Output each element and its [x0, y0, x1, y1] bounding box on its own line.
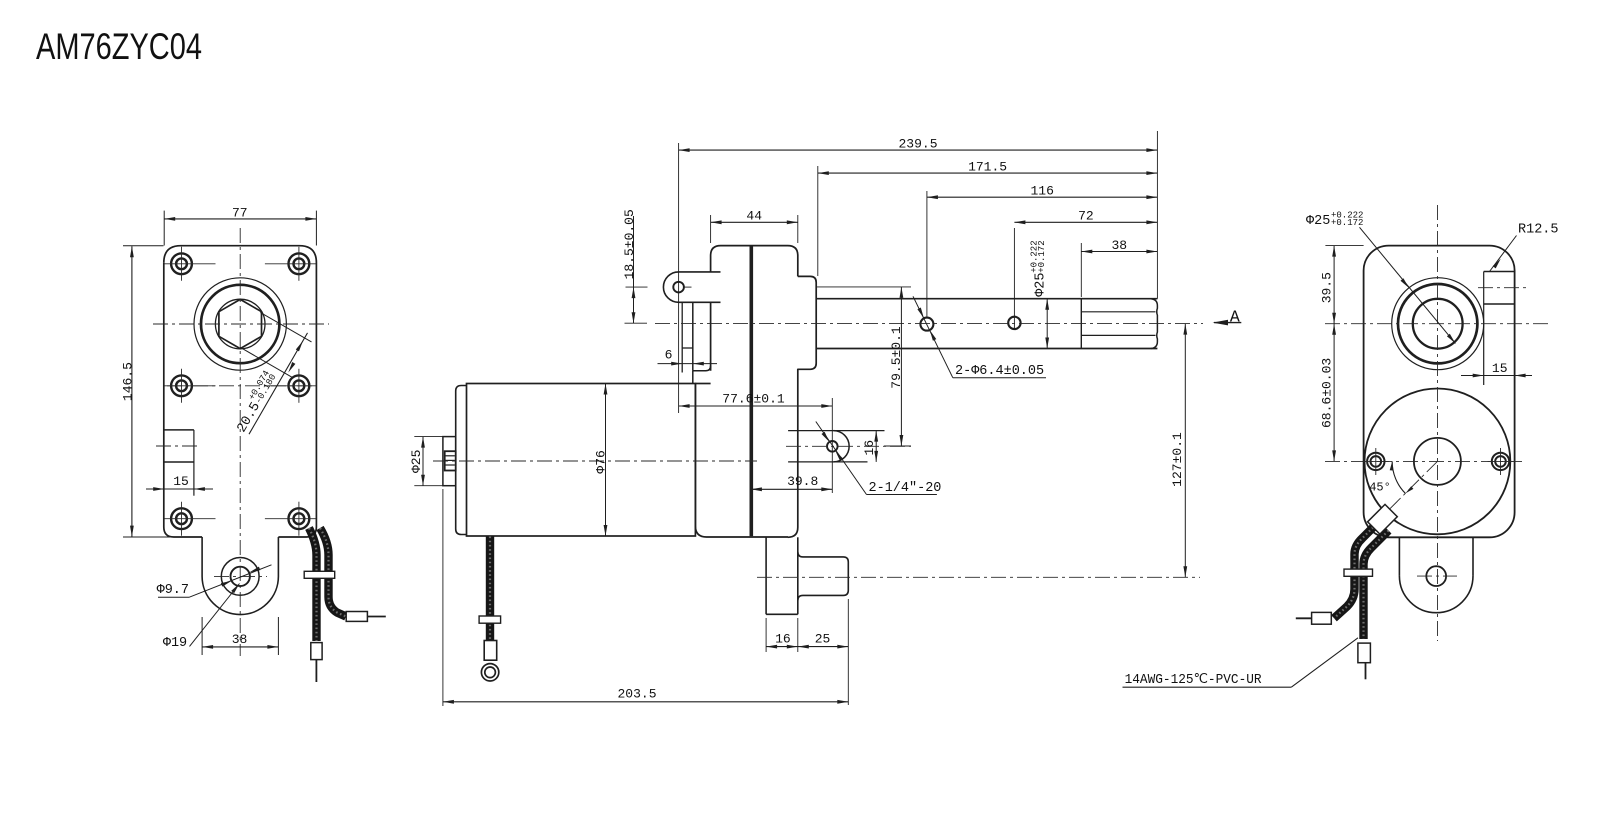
svg-text:44: 44	[746, 209, 762, 224]
svg-text:171.5: 171.5	[968, 160, 1007, 175]
svg-text:14AWG-125℃-PVC-UR: 14AWG-125℃-PVC-UR	[1125, 673, 1262, 688]
svg-text:2-Φ6.4±0.05: 2-Φ6.4±0.05	[955, 364, 1044, 379]
svg-text:39.8: 39.8	[787, 474, 818, 489]
svg-text:15: 15	[1492, 361, 1508, 376]
svg-text:116: 116	[1030, 184, 1053, 199]
svg-text:39.5: 39.5	[1320, 272, 1335, 303]
svg-text:146.5: 146.5	[120, 362, 135, 401]
svg-text:77.6±0.1: 77.6±0.1	[722, 391, 785, 406]
svg-text:203.5: 203.5	[617, 687, 656, 702]
svg-text:38: 38	[232, 632, 248, 647]
svg-text:45°: 45°	[1369, 481, 1391, 495]
svg-text:Φ25: Φ25	[409, 450, 424, 473]
svg-text:+0.172: +0.172	[1331, 218, 1363, 228]
svg-text:239.5: 239.5	[898, 137, 937, 152]
svg-text:15: 15	[173, 474, 189, 489]
svg-text:25: 25	[815, 632, 831, 647]
svg-text:+0.172: +0.172	[1037, 240, 1047, 272]
svg-text:38: 38	[1111, 238, 1127, 253]
svg-text:Φ25: Φ25	[1034, 272, 1049, 296]
svg-text:Φ76: Φ76	[594, 450, 609, 473]
svg-text:Φ19: Φ19	[163, 636, 187, 651]
svg-text:68.6±0.03: 68.6±0.03	[1320, 358, 1335, 428]
svg-text:AM76ZYC04: AM76ZYC04	[36, 26, 202, 67]
svg-text:79.5±0.1: 79.5±0.1	[889, 326, 904, 389]
svg-text:127±0.1: 127±0.1	[1170, 432, 1185, 487]
svg-text:72: 72	[1078, 209, 1094, 224]
svg-text:18.5±0.05: 18.5±0.05	[622, 209, 637, 279]
svg-text:2-1/4″-20: 2-1/4″-20	[869, 481, 942, 496]
svg-text:Φ25: Φ25	[1306, 214, 1330, 229]
svg-text:16: 16	[862, 440, 877, 456]
svg-text:16: 16	[775, 632, 791, 647]
svg-text:77: 77	[232, 205, 248, 220]
svg-text:Φ9.7: Φ9.7	[157, 583, 189, 598]
svg-text:A: A	[1230, 308, 1240, 327]
svg-text:6: 6	[665, 348, 673, 363]
svg-text:R12.5: R12.5	[1518, 223, 1559, 238]
